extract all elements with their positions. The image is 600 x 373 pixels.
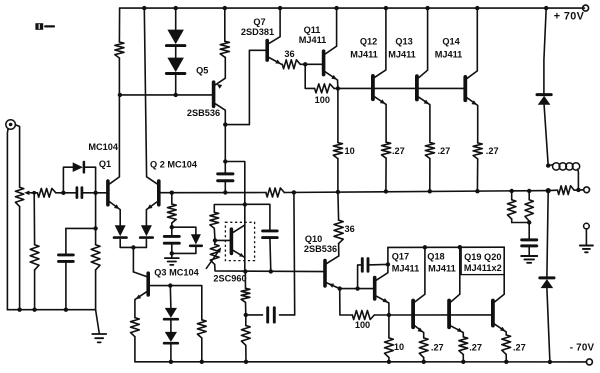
transistor Q18 [447,301,451,328]
wire [215,239,231,241]
resistor R7 feedback [266,188,284,197]
node [355,286,359,290]
transistor Q16 [373,278,377,299]
wire [368,263,388,266]
driver base wire [340,288,375,290]
svg-text:Q17: Q17 [392,252,409,262]
node [17,308,21,312]
node [244,360,248,364]
node [544,6,548,10]
node [461,360,465,364]
node [243,269,247,273]
svg-text:.27: .27 [469,343,482,353]
output terminal [584,187,590,193]
wire [172,227,196,234]
diode D9 [537,93,551,96]
Q11 collector [325,8,336,54]
wire [388,315,390,338]
transistor Q19 [491,301,495,326]
transistor Q12 [371,76,375,99]
ground [580,245,593,247]
wire [340,289,353,315]
svg-text:Q10: Q10 [305,234,322,244]
node [334,6,338,10]
wire [528,221,530,223]
resistor R12 [382,142,391,158]
node [336,190,340,194]
svg-text:Q11: Q11 [304,25,321,35]
wire [175,8,177,30]
wire [374,314,389,316]
resistor R24 [334,220,343,244]
resistor R21 [241,326,250,346]
wire [224,125,226,162]
wire [170,345,172,362]
Q18 emitter [451,326,463,337]
wire [358,265,362,289]
wire [505,354,507,361]
resistor R10 [315,84,335,93]
wire [462,355,464,362]
capacitor C5 [263,229,278,232]
svg-text:MJ411: MJ411 [350,49,378,59]
resistor R26 [385,338,394,358]
svg-text:MJ411: MJ411 [392,264,420,274]
svg-text:MJ411: MJ411 [299,35,327,45]
resistor R6 [167,204,176,223]
wire [245,204,270,231]
svg-text:Q19 Q20: Q19 Q20 [464,252,501,262]
svg-text:100: 100 [355,320,370,330]
wire [300,63,323,65]
capacitor C4 bootstrap [218,172,233,175]
wire [145,240,147,248]
Q16 emitter [377,296,389,315]
resistor R29 [502,335,511,355]
wire [65,261,67,309]
svg-text:Q1: Q1 [99,159,111,169]
wire [385,158,387,191]
wire [337,159,339,192]
vbe box [225,222,254,260]
svg-text:.27: .27 [431,343,444,353]
svg-text:2SD381: 2SD381 [241,27,274,37]
wire [214,205,245,213]
wire [215,264,325,271]
Q12 emitter [375,97,386,142]
wire [159,192,172,194]
wire [547,191,548,277]
svg-text:100: 100 [315,95,330,105]
capacitor C1 [76,188,79,198]
node [118,93,122,97]
diode D5 [141,225,152,236]
resistor R8 [220,41,229,57]
Q8 emitter [233,250,245,257]
resistor R3 [30,245,39,270]
transistor Q10 [323,261,327,286]
node [174,93,178,97]
wire [19,206,21,309]
diode D1 [167,30,184,44]
node [527,189,531,193]
svg-text:Q14: Q14 [442,37,460,47]
Q1 emitter [110,202,121,225]
svg-text:Q7: Q7 [253,17,265,27]
wire [15,125,19,187]
wire [31,192,37,194]
node [510,189,514,193]
wire [585,229,587,245]
trimmer arrow [206,249,220,268]
svg-text:.27: .27 [486,146,499,156]
node [168,283,172,287]
wire [224,181,226,193]
wire [171,223,173,236]
wire [175,75,177,95]
svg-text:MJ411: MJ411 [388,49,416,59]
svg-text:Q13: Q13 [395,37,412,47]
resistor R18 [210,212,219,228]
wire [119,240,121,248]
wire [201,338,203,362]
Q2 collector [144,8,157,184]
wire [95,193,97,245]
wire [65,228,67,255]
svg-text:36: 36 [284,49,294,59]
wire [96,310,100,333]
node [64,308,68,312]
node [170,225,174,229]
node [142,6,146,10]
Q11 emitter [325,72,338,89]
Q3 base [148,286,202,320]
Q8 collector [233,225,245,232]
resistor R11 [333,143,342,159]
wire [172,247,196,253]
wire [512,222,530,224]
wire [528,191,530,200]
node [32,308,36,312]
resistor R13 [425,143,434,159]
wire [66,227,96,229]
base bus [338,87,465,89]
svg-text:MC104: MC104 [88,142,119,152]
node [303,62,307,66]
svg-text:Q 2 MC104: Q 2 MC104 [150,159,198,169]
wire [305,64,314,88]
wire [574,189,583,191]
node [93,191,97,195]
svg-text:2SB536: 2SB536 [187,108,220,118]
Q7 collector [269,8,280,43]
svg-text:Q12: Q12 [360,37,377,47]
Q17 collector [415,247,425,302]
wire [334,87,338,89]
transistor Q8 2SC960 [230,229,234,253]
svg-text:.27: .27 [392,146,405,156]
node [278,6,282,10]
transistor Q13 [415,76,419,99]
node [548,360,552,364]
wire [213,228,216,240]
Q3 collector [133,272,146,277]
lower base bus [389,314,493,316]
Q7 base [225,50,267,124]
Q3 emitter [135,292,147,318]
node [387,313,391,317]
Q2 emitter [146,202,157,225]
ground terminal [584,223,590,229]
Q18 collector [451,247,460,302]
node A [131,245,135,249]
ground wire [7,309,95,311]
node [223,190,227,194]
wire [245,345,247,362]
wire [245,315,247,326]
wire [56,192,76,194]
ground [171,253,173,257]
wire [120,246,146,248]
resistor R9 [282,60,300,69]
wire [337,88,339,142]
trimmer R19 [210,244,219,264]
ground [521,255,537,257]
input jack J1 [6,120,16,130]
Q12 collector [375,8,386,77]
Q10 collector [327,256,339,264]
-70V rail [135,361,587,363]
node [269,269,273,273]
Q14 collector [467,8,477,78]
Q13 collector [419,8,428,78]
wire [63,167,72,193]
wire [429,159,431,192]
node [546,163,550,167]
svg-text:10: 10 [394,342,404,352]
diode D6 [165,308,177,318]
resistor R14 [473,143,482,159]
wire [104,192,108,194]
wire 36ohm leg [337,192,340,220]
svg-text:10: 10 [345,146,355,156]
label box [461,247,504,274]
node [458,245,462,249]
wire [85,167,96,193]
svg-text:MJ411: MJ411 [435,49,463,59]
diode D2 [167,58,184,73]
Q14 emitter [467,98,478,143]
node [170,251,174,255]
node [384,189,388,193]
node [576,188,580,192]
Q19 emitter [495,324,507,335]
diode D10 [540,276,554,279]
transistor Q3 [146,273,150,295]
node [386,262,390,266]
Q13 emitter [419,97,430,142]
node [425,6,429,10]
node [475,189,479,193]
wire [544,105,548,166]
Q1 collector [110,58,120,184]
resistor R5 [115,42,124,58]
node [244,313,248,317]
node [174,6,178,10]
resistor R2 [37,188,55,197]
Q17 emitter [415,326,424,338]
ground [92,333,106,335]
wire [95,270,97,310]
Q19 collector [495,247,505,302]
Q5 emitter [215,57,225,85]
node [32,191,36,195]
wire [528,223,530,240]
potentiometer VR1 [15,187,23,206]
svg-text:36: 36 [345,224,355,234]
wire [244,271,246,288]
node [169,360,173,364]
node [338,286,342,290]
capacitor C6 [266,308,269,322]
wire [214,240,216,244]
+70V rail [120,7,585,9]
node [387,360,391,364]
svg-text:MJ411x2: MJ411x2 [464,263,502,273]
svg-text:Q18: Q18 [427,252,444,262]
wire [118,8,120,42]
Q10 base wire [324,271,326,273]
resistor R20 [241,288,250,302]
capacitor C3 [164,235,179,238]
wire [476,159,478,191]
wire [224,8,226,41]
page mark [35,23,43,30]
resistor R22 [131,318,140,337]
resistor R25 [352,311,374,320]
node [93,226,97,230]
svg-text:Q5: Q5 [196,66,208,76]
capacitor C7 [522,238,537,241]
node [61,191,65,195]
inductor L1 [548,165,553,166]
node [504,360,508,364]
wire [225,162,245,272]
node [170,191,174,195]
wire [284,191,548,193]
wire [544,8,546,93]
transistor Q17 [411,301,415,328]
node [292,190,296,194]
node [546,188,551,193]
-70V terminal [586,359,592,365]
wire [175,47,177,58]
node [243,202,247,206]
svg-text:.27: .27 [513,343,526,353]
diode D4 [115,225,126,236]
svg-text:.27: .27 [438,146,451,156]
wire [388,358,390,362]
wire [245,302,247,315]
node [223,159,227,163]
resistor R27 [419,338,428,358]
wire [548,189,557,191]
wire [6,129,9,310]
Q5 collector [215,104,225,125]
transistor Q11 [322,51,326,74]
pot wiper arrow [27,192,31,194]
transistor Q1 [106,181,110,205]
wire [33,193,35,245]
node [423,245,427,249]
svg-text:MJ411: MJ411 [428,264,456,274]
node [223,122,227,126]
wire [82,192,104,194]
resistor R15 [558,186,575,195]
node [384,6,388,10]
node [213,238,217,242]
wire [169,286,172,308]
wire [338,244,340,256]
wire [511,191,513,200]
resistor R4 [91,245,100,270]
transistor Q2 [157,181,161,205]
+70V terminal [583,5,589,11]
collector line [388,246,504,248]
svg-text:- 70V: - 70V [570,343,595,354]
resistor R16 [508,200,516,219]
wire [132,247,134,272]
node [336,86,340,90]
transistor Q5 [212,82,216,106]
resistor R23 [197,320,206,338]
node [475,6,479,10]
svg-text:Q3 MC104: Q3 MC104 [154,268,199,278]
diode D3 [73,162,83,172]
capacitor C8 [361,259,364,272]
wire [293,192,296,315]
wire [34,270,36,310]
wire [246,314,263,316]
Q16 collector [377,247,388,280]
diode D7 [165,332,177,342]
Q7 emitter [269,58,282,65]
svg-text:+ 70V: + 70V [554,11,585,23]
wire [528,246,530,256]
svg-text:2SB536: 2SB536 [304,244,337,254]
node [223,6,227,10]
capacitor C2 [59,253,74,256]
output rail [172,192,266,194]
wire [280,314,295,316]
wire [170,321,172,332]
wire [423,358,425,362]
wire [269,238,272,272]
resistor R28 [459,337,468,355]
node [428,189,432,193]
svg-text:2SC960: 2SC960 [213,274,246,284]
Q5 base wire [120,94,212,96]
node [527,220,531,224]
transistor Q14 [463,77,467,100]
node [422,360,426,364]
wire [511,219,513,223]
wire [134,337,136,362]
Q10 emitter [327,283,340,289]
transistor Q7 [265,41,269,61]
diode D8 [191,234,201,244]
wire [224,162,226,174]
